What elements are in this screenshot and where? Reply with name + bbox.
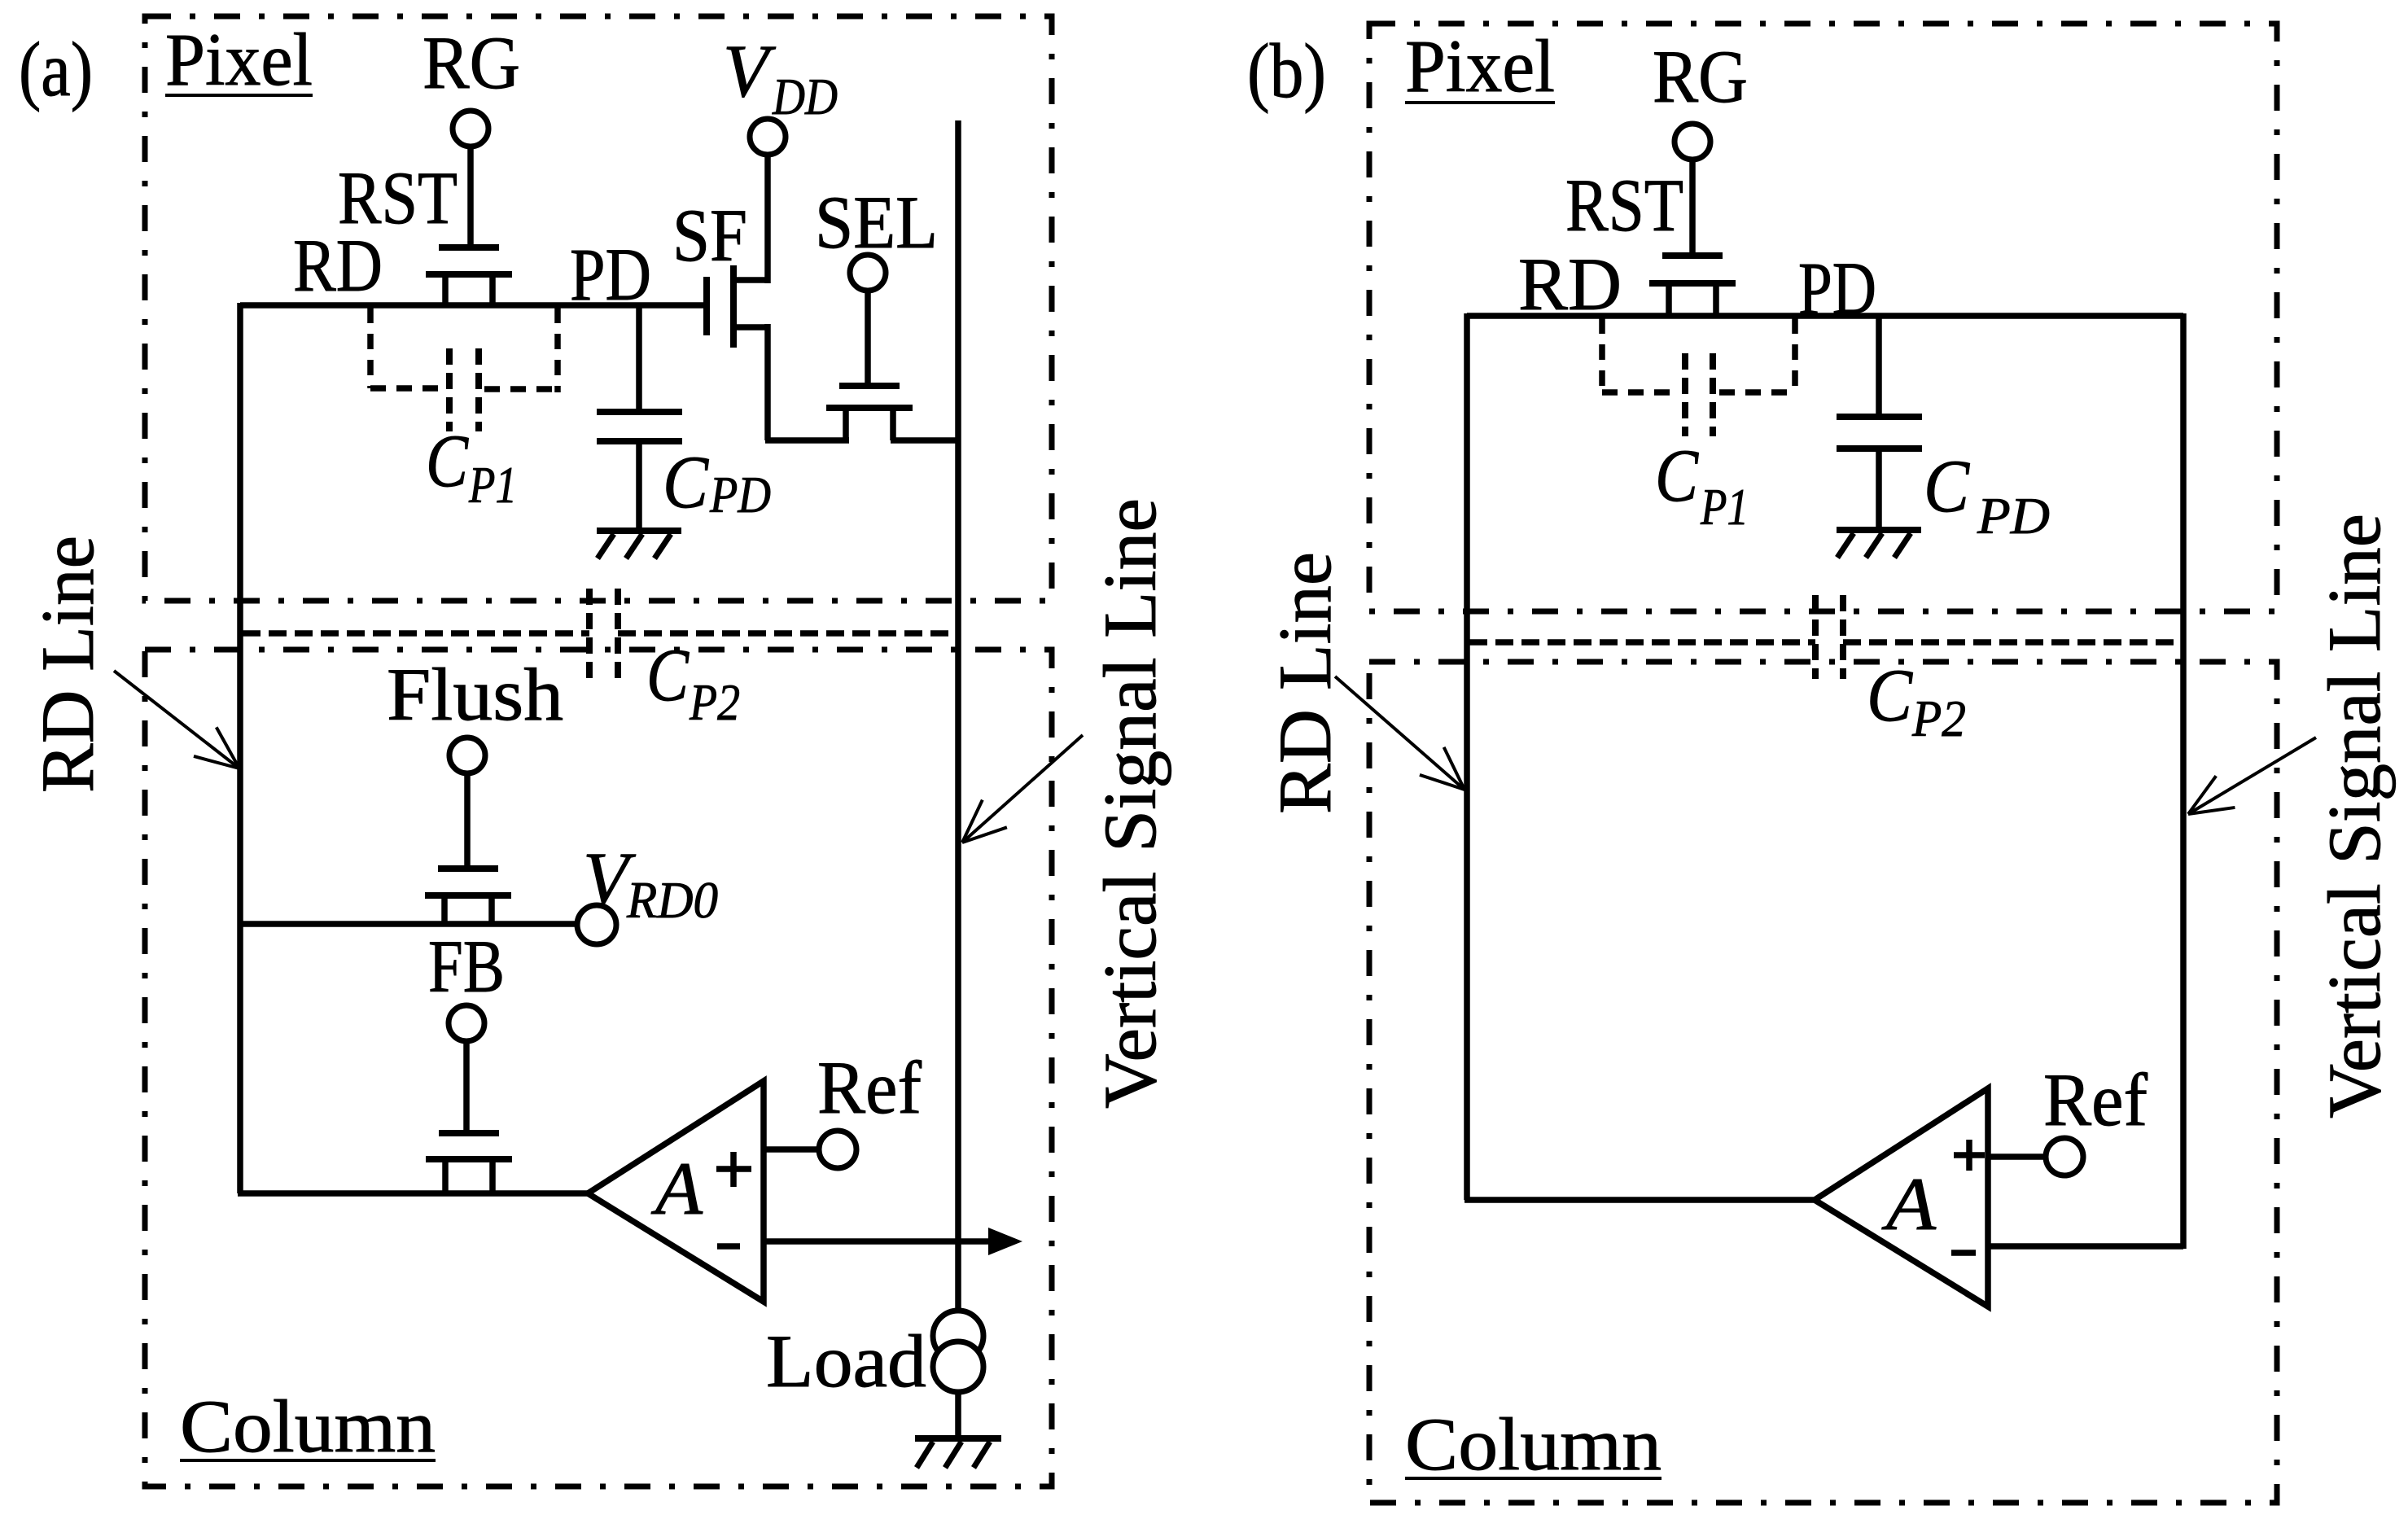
terminal SEL circle (a) <box>865 290 871 383</box>
svg-text:Pixel: Pixel <box>165 18 313 101</box>
svg-text:RD: RD <box>1518 243 1622 326</box>
svg-text:RST: RST <box>338 156 458 239</box>
Pixel box (b) dash-dot border <box>1369 24 2277 611</box>
op-amp A triangle (b) <box>1815 1088 1988 1307</box>
svg-text:C: C <box>663 440 709 523</box>
Pixel box (a) dash-dot border <box>145 16 1052 601</box>
svg-text:P2: P2 <box>1911 689 1966 747</box>
transistor SEL (a) <box>839 383 900 389</box>
minus input mark (a) <box>717 1243 740 1250</box>
capacitor CP1 (b) dashed parasitic <box>1599 318 1605 392</box>
arrow to vertical signal line (b) <box>2188 738 2316 814</box>
wire: vertical signal line (a) <box>955 120 961 1311</box>
svg-text:DD: DD <box>772 68 838 125</box>
svg-text:SEL: SEL <box>815 181 938 264</box>
svg-text:C: C <box>1867 654 1913 737</box>
svg-text:RG: RG <box>1653 35 1748 118</box>
svg-text:RD Line: RD Line <box>26 536 109 793</box>
plus input mark (b) <box>1954 1152 1985 1158</box>
capacitor CPD (b) <box>1876 316 1882 414</box>
Column box (a) dash-dot border <box>145 650 1052 1486</box>
svg-text:V: V <box>723 29 777 112</box>
svg-text:PD: PD <box>1798 247 1876 330</box>
svg-text:RD Line: RD Line <box>1263 552 1346 814</box>
svg-text:A: A <box>1880 1162 1936 1245</box>
arrow to vertical signal line (a) <box>962 735 1083 843</box>
current source Load (a) <box>933 1311 983 1361</box>
svg-text:RST: RST <box>1565 164 1683 247</box>
op-amp A triangle (a) <box>588 1081 764 1302</box>
op-amp output wire feedback (b) <box>1988 1243 2183 1250</box>
ground of CPD (a) <box>597 527 681 534</box>
svg-text:SF: SF <box>672 194 747 277</box>
transistor Flush-FB (a) <box>438 865 498 872</box>
ground of CPD (b) <box>1837 527 1921 533</box>
wire: FB row horizontal to VRD0 (a) <box>240 921 578 927</box>
capacitor CPD (a) <box>636 305 642 409</box>
svg-text:Load: Load <box>766 1320 926 1403</box>
transistor RST (b) <box>1662 252 1723 259</box>
svg-text:RD0: RD0 <box>626 871 718 929</box>
transistor SF (a) vertical channel <box>703 277 710 335</box>
ground of vertical signal line (a) <box>915 1435 1001 1442</box>
svg-text:P2: P2 <box>689 673 740 731</box>
terminal Flush circle (a) <box>449 738 485 773</box>
capacitor CP2 (b) dashed vertical plates <box>1812 595 1819 679</box>
transistor FB amp-input (a) <box>439 1130 499 1136</box>
svg-text:PD: PD <box>570 233 651 316</box>
svg-text:FB: FB <box>428 925 505 1008</box>
arrow to RD line (b) <box>1335 676 1465 790</box>
wire: amp input row (a) <box>238 1190 588 1197</box>
svg-text:PD: PD <box>709 466 771 523</box>
svg-text:(a): (a) <box>19 26 93 112</box>
terminal VRD0 circle (a) <box>577 905 616 944</box>
svg-text:Column: Column <box>1405 1403 1662 1486</box>
arrow to RD line (a) <box>114 671 239 768</box>
svg-text:Flush: Flush <box>387 653 563 736</box>
arrowhead output (a) <box>988 1228 1022 1255</box>
plus input mark (a) <box>716 1166 751 1172</box>
terminal RG circle (b) <box>1689 159 1696 252</box>
terminal RG circle (a) <box>467 146 474 244</box>
coupling dashed line (b) <box>1469 639 1815 646</box>
wire: SF source down to SEL drain (a) <box>764 324 771 440</box>
Column box (b) dash-dot border <box>1369 662 2277 1503</box>
svg-text:Column: Column <box>180 1385 436 1468</box>
node RD wire (b) <box>1467 313 2183 319</box>
svg-text:PD: PD <box>1977 487 2050 545</box>
terminal VDD circle (a) <box>764 154 771 283</box>
svg-text:Ref: Ref <box>817 1046 922 1129</box>
wire: SEL source to vertical signal line (a) <box>891 437 961 444</box>
svg-text:C: C <box>646 633 690 716</box>
svg-text:P1: P1 <box>1700 478 1749 536</box>
svg-text:RG: RG <box>422 21 520 104</box>
svg-text:C: C <box>1655 434 1699 517</box>
wire: right vertical signal line (b) <box>2180 313 2187 1249</box>
svg-text:A: A <box>650 1147 703 1230</box>
terminal FB circle (a) <box>449 1005 484 1041</box>
Ref lead and terminal (a) <box>764 1146 821 1153</box>
svg-text:Vertical Signal Line: Vertical Signal Line <box>1088 498 1171 1109</box>
capacitor CP2 (a) dashed vertical plates <box>586 589 593 682</box>
minus input mark (b) <box>1951 1250 1976 1256</box>
Ref lead and terminal (b) <box>1988 1153 2047 1160</box>
svg-text:Pixel: Pixel <box>1405 24 1555 107</box>
op-amp output wire with arrow (a) <box>764 1238 995 1245</box>
svg-text:Vertical Signal Line: Vertical Signal Line <box>2313 514 2396 1118</box>
svg-text:C: C <box>1924 444 1970 527</box>
svg-text:C: C <box>426 419 469 502</box>
wire: RD line left vertical (b) <box>1464 313 1470 1200</box>
coupling dashed line (a) <box>243 630 589 637</box>
wire: amp input row (b) <box>1465 1197 1815 1203</box>
transistor RST (a) <box>439 244 499 251</box>
svg-text:P1: P1 <box>468 456 517 514</box>
wire: RD line left vertical (a) <box>237 303 243 1193</box>
svg-text:(b): (b) <box>1247 28 1326 114</box>
node RD wire (a): horizontal wire RD-PD row <box>240 302 707 309</box>
capacitor CP1 (a) dashed parasitic <box>367 308 374 388</box>
svg-text:Ref: Ref <box>2043 1058 2147 1141</box>
